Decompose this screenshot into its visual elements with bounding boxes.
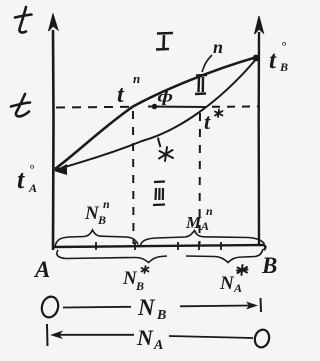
x-axis tick 4 <box>198 242 200 250</box>
N_B scale: 0 label <box>40 295 61 319</box>
temperature label t (left, at dashed line) <box>11 94 30 116</box>
svg-text:N: N <box>219 273 235 294</box>
overbrace N_B^n <box>55 230 138 246</box>
svg-text:B: B <box>135 279 144 293</box>
svg-text:B: B <box>261 253 277 278</box>
svg-text:B: B <box>97 213 106 227</box>
solidus curve (lower) <box>55 58 257 170</box>
svg-text:n: n <box>103 197 110 211</box>
label N_B^* <box>122 268 144 293</box>
svg-text:N: N <box>136 325 154 350</box>
N_A scale: 0 label <box>253 328 271 349</box>
y-axis left with arrow <box>49 14 59 250</box>
svg-text:ф: ф <box>158 88 173 105</box>
svg-text:A: A <box>200 219 209 233</box>
label t°B <box>269 38 288 74</box>
N_B scale: label N_B <box>137 295 166 323</box>
svg-text:N: N <box>137 295 156 320</box>
label t°A (origin) <box>17 161 37 195</box>
svg-text:A: A <box>153 338 163 353</box>
liquidus curve (upper) <box>55 57 257 169</box>
label N_A^* <box>219 273 242 295</box>
svg-text:n: n <box>206 204 213 218</box>
N_B scale: right segment with arrow <box>180 305 250 308</box>
x-axis tick 2 <box>134 242 136 250</box>
svg-text:B: B <box>156 308 166 323</box>
x-axis tick 5 <box>220 242 222 250</box>
region label III <box>153 182 165 206</box>
svg-text:t: t <box>17 165 25 194</box>
label t* at solidus crossing <box>204 109 211 134</box>
N_A scale: left arrow <box>50 331 63 340</box>
vertical dashed line at N_B^n <box>132 111 135 244</box>
svg-text:A: A <box>233 281 242 295</box>
underbrace N_A^* <box>186 249 263 263</box>
horizontal dashed line at t <box>56 106 130 109</box>
label M_A^n <box>185 204 213 233</box>
svg-text:A: A <box>28 181 37 195</box>
N_A scale: label N_A <box>136 325 163 353</box>
asterisk label with leader (solidus) <box>159 147 173 161</box>
svg-text:n: n <box>213 37 223 57</box>
junction blob at t°A <box>54 164 67 175</box>
overbrace M_A^n <box>140 231 265 247</box>
x-axis tick 1 <box>95 242 97 250</box>
N_B scale: left segment <box>63 306 131 309</box>
x-axis tick 3 <box>177 242 179 250</box>
phi point dot <box>152 104 158 110</box>
svg-text:B: B <box>279 60 288 74</box>
svg-text:°: ° <box>281 38 287 53</box>
x-axis <box>54 245 265 250</box>
svg-text:t: t <box>269 47 277 74</box>
N_A scale: right segment <box>169 336 253 338</box>
label t^n at liquidus crossing <box>117 71 140 108</box>
svg-text:A: A <box>33 257 50 282</box>
svg-text:M: M <box>185 213 202 232</box>
axis label t (top-left) <box>15 7 32 33</box>
underbrace N_B^* <box>57 250 167 263</box>
region label II <box>195 75 207 94</box>
vertical dashed line at t* <box>199 113 202 244</box>
label N_B^n <box>84 197 110 227</box>
svg-text:n: n <box>133 71 140 86</box>
region label I <box>156 33 173 50</box>
svg-text:°: ° <box>29 161 35 176</box>
svg-text:t: t <box>204 109 211 134</box>
N_B scale: end bar <box>260 298 263 312</box>
y-axis right with arrow <box>255 16 264 246</box>
N_A scale: start bar <box>46 324 49 346</box>
junction dot at t°B <box>253 55 260 62</box>
